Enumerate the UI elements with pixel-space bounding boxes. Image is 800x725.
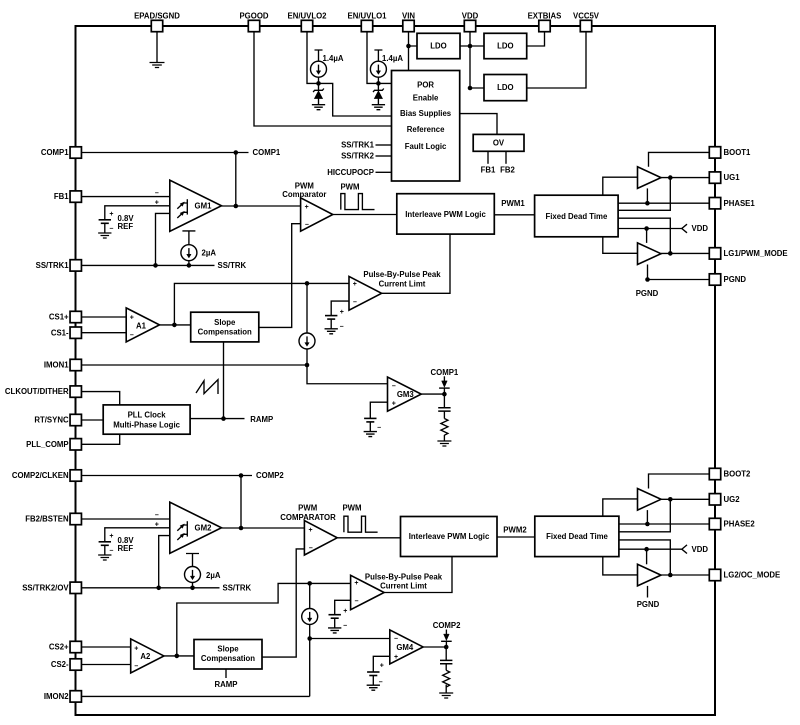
wire A1 loop to current limit comparator (174, 283, 349, 325)
svg-text:LDO: LDO (497, 42, 513, 51)
svg-text:FB2: FB2 (500, 166, 515, 175)
wire GM3 + to battery (370, 402, 387, 418)
LDO block 2 (VDD) (484, 33, 527, 58)
wire GM1 output to PWM comparator (222, 205, 301, 207)
svg-text:VDD: VDD (692, 545, 709, 554)
wire VDD supply arrow 1 (618, 228, 682, 230)
pin UG1 (709, 172, 720, 183)
node FB1 stub (487, 151, 489, 164)
svg-text:REF: REF (118, 222, 134, 231)
svg-text:–: – (155, 190, 159, 197)
svg-text:Current Limt: Current Limt (379, 279, 426, 288)
svg-text:Bias Supplies: Bias Supplies (400, 109, 452, 118)
wire FB2 to GM2 (76, 518, 170, 520)
junction SS/TRK2 a (156, 586, 161, 591)
wire driver lower rail to PHASE1 (646, 188, 648, 203)
junction PHASE1 (645, 201, 650, 206)
svg-text:SS/TRK1: SS/TRK1 (341, 141, 375, 150)
svg-text:+: + (353, 281, 357, 288)
wire GM3 output (421, 393, 444, 395)
wire CS1+ to A1 (76, 316, 126, 318)
svg-text:+: + (130, 315, 134, 322)
OV comparator block (473, 134, 524, 151)
svg-text:1.4µA: 1.4µA (323, 54, 344, 63)
wire current sense node channel2 (309, 583, 311, 608)
svg-text:2µA: 2µA (202, 249, 217, 258)
svg-text:SS/TRK: SS/TRK (223, 583, 252, 592)
svg-text:CS1+: CS1+ (49, 313, 69, 322)
driver lower 1 (638, 243, 662, 265)
svg-text:+: + (308, 527, 312, 534)
svg-text:LG1/PWM_MODE: LG1/PWM_MODE (724, 249, 788, 258)
svg-text:–: – (134, 663, 138, 670)
comparator Pulse-By-Pulse Peak Current Limit 1 (349, 276, 382, 310)
current source 2uA (channel 1) (182, 231, 195, 245)
svg-text:1.4µA: 1.4µA (382, 54, 403, 63)
svg-text:GM4: GM4 (396, 643, 414, 652)
svg-text:PLL Clock: PLL Clock (128, 411, 167, 420)
wire slope comp 2 to PWM comparator 2 minus (262, 549, 304, 657)
pin FB2/BSTEN (70, 513, 81, 524)
ground EPAD (150, 63, 165, 68)
svg-text:–: – (130, 332, 134, 339)
svg-text:PHASE1: PHASE1 (724, 199, 756, 208)
svg-text:+: + (155, 200, 159, 207)
svg-text:PGND: PGND (637, 600, 660, 609)
wire UG2 feedback (619, 499, 670, 532)
node RAMP label channel 2 (225, 669, 227, 678)
junction VDD driver 1 (644, 226, 649, 231)
junction SS/TRK2 b (190, 586, 195, 591)
junction VDD upper (468, 44, 473, 49)
svg-text:Multi-Phase Logic: Multi-Phase Logic (113, 420, 180, 429)
pin IMON2 (70, 691, 81, 702)
junction UG1 (668, 175, 673, 180)
svg-text:POR: POR (417, 81, 434, 90)
wire LG2 feedback (619, 540, 670, 575)
svg-text:GM3: GM3 (397, 390, 415, 399)
svg-text:VDD: VDD (692, 224, 709, 233)
svg-text:SS/TRK1: SS/TRK1 (36, 261, 70, 270)
pin LG1/PWM_MODE (709, 248, 720, 259)
wire PHASE2 net (619, 523, 715, 525)
driver upper 2 (638, 489, 662, 511)
junction GM1 output (234, 204, 239, 209)
wire PWM comparator output (333, 214, 397, 216)
svg-text:RAMP: RAMP (215, 680, 238, 689)
junction LG2 (668, 573, 673, 578)
op-amp GM4 (390, 630, 423, 664)
wire IMON2 net (76, 695, 310, 697)
junction GM3 output (442, 392, 447, 397)
svg-text:GM2: GM2 (195, 523, 213, 532)
wire CS2- to A2 (76, 664, 131, 666)
svg-text:RT/SYNC: RT/SYNC (34, 416, 69, 425)
comparator Pulse-By-Pulse Peak Current Limit 2 (351, 575, 385, 609)
svg-text:VCC5V: VCC5V (573, 11, 600, 20)
current source 1.4uA (EN/UVLO1) (374, 50, 382, 61)
wire COMP2 net (76, 476, 252, 529)
junction VDD driver 2 (644, 547, 649, 552)
pin PHASE1 (709, 198, 720, 209)
svg-text:PGOOD: PGOOD (239, 11, 268, 20)
current source ramp 1 (299, 333, 315, 349)
wire VDD to lower driver (646, 229, 648, 243)
svg-text:+: + (354, 580, 358, 587)
svg-text:PHASE2: PHASE2 (724, 520, 756, 529)
wire dead time 2 to upper driver input (603, 499, 638, 516)
wire CS1- to A1 (76, 332, 126, 334)
pin COMP1 (70, 147, 81, 158)
wire CS2+ to A2 (76, 646, 131, 648)
battery threshold 2 (329, 614, 341, 616)
wire PLL_COMP stub (76, 434, 120, 444)
svg-text:COMP2/CLKEN: COMP2/CLKEN (12, 471, 69, 480)
svg-text:SS/TRK2: SS/TRK2 (341, 152, 375, 161)
junction EN/UVLO1 (376, 81, 381, 86)
svg-text:EPAD/SGND: EPAD/SGND (134, 11, 180, 20)
junction COMP1 (234, 150, 239, 155)
wire to GM3 minus (307, 365, 388, 384)
wire A2 output to slope compensation 2 (164, 655, 194, 657)
pin PGND (709, 274, 720, 285)
Fixed Dead Time block 1 (535, 195, 619, 237)
svg-text:–: – (377, 424, 381, 431)
capacitor resistor compensation network 1 (443, 394, 445, 408)
svg-text:+: + (340, 309, 344, 316)
junction peak limit input (305, 281, 310, 286)
svg-text:COMP2: COMP2 (256, 471, 284, 480)
pin SS/TRK2/OV (70, 582, 81, 593)
pin CLKOUT/DITHER (70, 386, 81, 397)
pin FB1 (70, 191, 81, 202)
svg-text:–: – (355, 598, 359, 605)
svg-text:PWM: PWM (298, 503, 317, 512)
reference battery 0.8V REF (99, 219, 111, 221)
wire LG2 output (661, 574, 715, 576)
junction UG2 (668, 497, 673, 502)
svg-text:BOOT1: BOOT1 (724, 148, 752, 157)
wire EN/UVLO1 branch (367, 31, 392, 83)
svg-text:–: – (394, 636, 398, 643)
wire BOOT1 to driver (649, 152, 716, 166)
wire PGND stub channel 2 (647, 586, 649, 598)
wire IMON1 net (76, 364, 307, 366)
wire current limit output to interleave logic (382, 234, 450, 293)
pin CS1+ (70, 311, 81, 322)
node SS/TRK1 into POR (376, 144, 392, 146)
Interleave PWM Logic block 2 (401, 517, 498, 557)
svg-text:PGND: PGND (636, 289, 659, 298)
wire PGND net 1 (648, 265, 716, 280)
svg-text:Current Limt: Current Limt (380, 582, 427, 591)
svg-text:–: – (343, 622, 347, 629)
svg-text:Pulse-By-Pulse Peak: Pulse-By-Pulse Peak (363, 270, 441, 279)
wire SS/TRK2 net (76, 587, 220, 589)
wire GM1 + input from reference (105, 206, 177, 220)
junction EN/UVLO2 (316, 81, 321, 86)
svg-text:–: – (309, 545, 313, 552)
svg-text:Fault Logic: Fault Logic (405, 142, 447, 151)
wire A2 loop to current limit comparator 2 (177, 583, 351, 656)
wire VDD supply arrow 2 (619, 548, 682, 550)
wire slope comp to RAMP node (223, 342, 225, 419)
wire VDD to lower driver 2 (646, 549, 648, 564)
svg-text:IMON2: IMON2 (44, 692, 69, 701)
svg-text:LDO: LDO (430, 42, 446, 51)
wire EXTBIAS to LDO (527, 31, 545, 46)
Fixed Dead Time block 2 (535, 516, 619, 556)
wire PGOOD to POR box (254, 31, 392, 126)
PLL Clock Multi-Phase Logic block (103, 405, 190, 434)
svg-text:HICCUPOCP: HICCUPOCP (327, 168, 374, 177)
battery GM3 reference (364, 417, 376, 419)
junction peak limit 2 input (307, 581, 312, 586)
pin IMON1 (70, 359, 81, 370)
wire UG2 output (661, 498, 715, 500)
junction GM2 output (239, 526, 244, 531)
svg-text:REF: REF (118, 544, 134, 553)
comparator PWM 2 (304, 521, 337, 555)
svg-text:LG2/OC_MODE: LG2/OC_MODE (724, 571, 781, 580)
svg-text:OV: OV (493, 139, 505, 148)
svg-text:Slope: Slope (217, 644, 239, 653)
wire RT/SYNC stub (76, 419, 103, 421)
pin PGOOD (248, 20, 259, 31)
svg-text:PWM2: PWM2 (503, 525, 527, 534)
pin VCC5V (580, 20, 591, 31)
wire GM2 + input from reference (105, 528, 177, 542)
svg-text:COMPARATOR: COMPARATOR (280, 513, 336, 522)
svg-text:–: – (353, 299, 357, 306)
pin RT/SYNC (70, 414, 81, 425)
zener diode D2 to ground (377, 83, 379, 90)
svg-text:EN/UVLO1: EN/UVLO1 (348, 11, 388, 20)
junction GM4 branch (307, 636, 312, 641)
svg-text:+: + (305, 204, 309, 211)
current source 1.4uA (EN/UVLO2) (315, 50, 323, 61)
wire driver lower rail to PHASE2 (646, 510, 648, 524)
junction A1 output (172, 323, 177, 328)
pin EN/UVLO1 (361, 20, 372, 31)
svg-text:+: + (134, 646, 138, 653)
driver lower 2 (638, 564, 662, 586)
svg-text:BOOT2: BOOT2 (724, 470, 752, 479)
driver upper 1 (638, 167, 662, 189)
svg-text:Compensation: Compensation (198, 328, 252, 337)
wire PWM2 to fixed dead time 2 (497, 536, 535, 538)
wire FB1 to GM1 (76, 196, 170, 198)
wire LG1 feedback (618, 218, 670, 253)
svg-text:VIN: VIN (402, 11, 415, 20)
svg-text:Fixed Dead Time: Fixed Dead Time (545, 212, 607, 221)
junction RAMP (221, 416, 226, 421)
svg-text:+: + (394, 654, 398, 661)
svg-text:Pulse-By-Pulse Peak: Pulse-By-Pulse Peak (365, 572, 443, 581)
junction PGND (645, 277, 650, 282)
waveform PWM 2 (344, 516, 378, 532)
svg-text:GM1: GM1 (195, 201, 213, 210)
wire RAMP net 1 (190, 418, 244, 420)
slope compensation block 1 (191, 312, 259, 342)
svg-text:Comparator: Comparator (282, 190, 326, 199)
svg-text:FB2/BSTEN: FB2/BSTEN (25, 515, 69, 524)
svg-text:Enable: Enable (413, 93, 439, 102)
wire PWM1 to fixed dead time (494, 214, 534, 216)
svg-text:–: – (109, 548, 113, 555)
svg-text:+: + (380, 662, 384, 669)
POR Enable Bias Supplies Reference Fault Logic block (392, 71, 460, 182)
svg-text:COMP2: COMP2 (433, 621, 461, 630)
pin SS/TRK1 (70, 260, 81, 271)
junction A2 output (175, 654, 180, 659)
pin VDD (464, 20, 475, 31)
svg-text:EN/UVLO2: EN/UVLO2 (288, 11, 328, 20)
pin EPAD/SGND (151, 20, 162, 31)
LDO block 1 (VIN) (417, 33, 460, 58)
wire slope comp to PWM comparator minus (259, 224, 301, 328)
wire GM4 output (423, 646, 446, 648)
wire dead time to lower driver input 2 (603, 557, 638, 575)
wire CLKOUT/DITHER stub (76, 392, 120, 405)
junction LG1 (668, 251, 673, 256)
wire POR to OV block (460, 114, 497, 135)
wire GM2 output to PWM comparator 2 (222, 527, 305, 529)
svg-text:+: + (109, 211, 113, 218)
GM1 clamp diodes (186, 199, 188, 214)
svg-text:+: + (109, 533, 113, 540)
waveform PWM 1 (341, 194, 375, 210)
Interleave PWM Logic block 1 (397, 194, 495, 234)
svg-text:–: – (109, 226, 113, 233)
svg-text:+: + (392, 400, 396, 407)
junction IMON1 (305, 363, 310, 368)
svg-text:COMP1: COMP1 (41, 148, 69, 157)
svg-text:PWM1: PWM1 (501, 199, 525, 208)
svg-text:COMP1: COMP1 (431, 368, 459, 377)
wire VDD net (460, 31, 484, 88)
svg-text:Reference: Reference (407, 125, 445, 134)
pin PLL_COMP (70, 439, 81, 450)
battery GM4 reference (367, 671, 379, 673)
pin CS2+ (70, 641, 81, 652)
junction SS/TRK1 a (153, 263, 158, 268)
reference battery 0.8V REF channel2 (99, 541, 111, 543)
svg-text:–: – (305, 221, 309, 228)
waveform sawtooth ramp (196, 380, 218, 394)
wire PWM comparator 2 output (337, 537, 400, 539)
pin CS2- (70, 659, 81, 670)
svg-text:IMON1: IMON1 (44, 361, 69, 370)
svg-text:LDO: LDO (497, 83, 513, 92)
junction SS/TRK1 b (187, 263, 192, 268)
GM2 clamp diodes (186, 521, 188, 536)
wire current sense node channel1 (306, 283, 308, 333)
op-amp GM1 (170, 180, 222, 231)
svg-text:RAMP: RAMP (250, 415, 273, 424)
svg-text:Interleave PWM Logic: Interleave PWM Logic (405, 210, 486, 219)
svg-text:A1: A1 (136, 321, 147, 330)
op-amp A1 (126, 308, 159, 342)
wire current limit 2 minus to battery (335, 600, 351, 614)
svg-text:UG1: UG1 (724, 173, 741, 182)
wire UG1 output (661, 177, 715, 179)
node SS/TRK2 into POR (376, 155, 392, 157)
capacitor resistor compensation network 2 (445, 647, 447, 660)
svg-text:–: – (155, 512, 159, 519)
pin LG2/OC_MODE (709, 569, 720, 580)
svg-text:–: – (392, 383, 396, 390)
wire EPAD/SGND to ground (156, 31, 158, 62)
pin COMP2/CLKEN (70, 470, 81, 481)
svg-text:PLL_COMP: PLL_COMP (26, 440, 68, 449)
pin PHASE2 (709, 518, 720, 529)
wire UG1 feedback (618, 178, 670, 211)
wire dead time to lower driver input 1 (603, 237, 638, 254)
svg-text:CS2+: CS2+ (49, 643, 69, 652)
svg-text:+: + (155, 522, 159, 529)
comparator PWM 1 (301, 198, 333, 231)
wire LG1 output (661, 252, 715, 254)
svg-text:UG2: UG2 (724, 495, 741, 504)
wire current limit 2 output to interleave logic 2 (384, 557, 452, 593)
wire to GM4 minus (310, 639, 390, 697)
svg-text:Fixed Dead Time: Fixed Dead Time (546, 532, 608, 541)
svg-text:COMP1: COMP1 (253, 148, 281, 157)
pin EN/UVLO2 (301, 20, 312, 31)
op-amp A2 (131, 639, 164, 673)
zener diode D1 to ground (318, 83, 320, 90)
pin CS1- (70, 327, 81, 338)
svg-text:FB1: FB1 (54, 192, 69, 201)
junction VDD lower (468, 86, 473, 91)
svg-text:EXTBIAS: EXTBIAS (528, 11, 562, 20)
svg-text:–: – (340, 323, 344, 330)
current source 2uA (channel 2) (186, 554, 199, 567)
junction GM4 output (444, 645, 449, 650)
svg-text:CS2-: CS2- (51, 660, 69, 669)
wire EN/UVLO2 branch (307, 31, 392, 116)
svg-text:Interleave PWM Logic: Interleave PWM Logic (409, 532, 490, 541)
wire A1 output to slope compensation (160, 324, 191, 326)
svg-text:2µA: 2µA (206, 571, 221, 580)
wire PHASE1 net (618, 202, 715, 204)
svg-text:Slope: Slope (214, 318, 236, 327)
LDO block 3 (484, 75, 527, 101)
pin EXTBIAS (539, 20, 550, 31)
pin UG2 (709, 494, 720, 505)
wire GM4 + to battery (373, 656, 390, 672)
svg-text:A2: A2 (140, 652, 151, 661)
wire VCC5V to LDO (527, 31, 586, 88)
junction PHASE2 (645, 522, 650, 527)
wire VIN down to POR (409, 31, 418, 71)
svg-text:PGND: PGND (724, 275, 747, 284)
svg-text:PWM: PWM (342, 503, 361, 512)
chip outline border (76, 26, 716, 715)
wire BOOT2 to driver (649, 474, 716, 489)
svg-text:SS/TRK2/OV: SS/TRK2/OV (22, 583, 69, 592)
junction COMP2 (239, 473, 244, 478)
svg-text:+: + (343, 608, 347, 615)
node HICCUPOCP into POR (376, 171, 392, 173)
op-amp GM2 (170, 502, 222, 553)
svg-text:VDD: VDD (462, 11, 479, 20)
svg-text:SS/TRK: SS/TRK (218, 261, 247, 270)
wire dead time to upper driver input 1 (603, 177, 638, 195)
battery threshold 1 (325, 315, 337, 317)
wire SS/TRK1 net (76, 264, 215, 266)
